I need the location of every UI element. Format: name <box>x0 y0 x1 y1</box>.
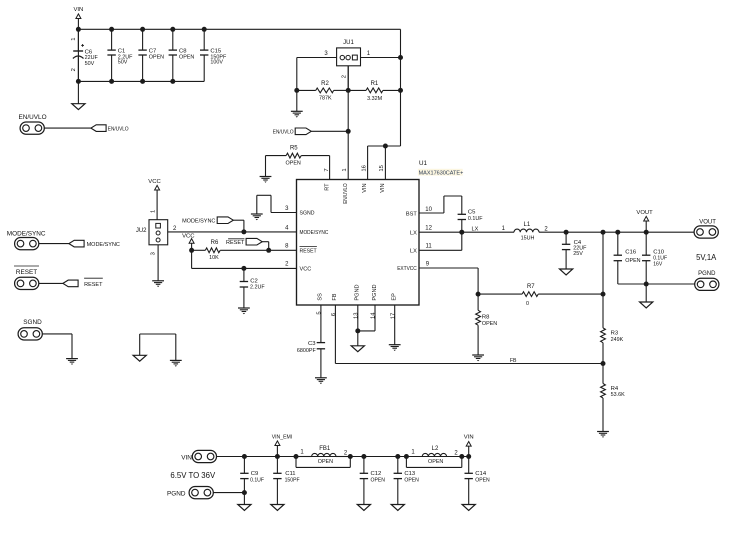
svg-text:SGND: SGND <box>23 319 42 326</box>
svg-text:C11: C11 <box>285 471 295 477</box>
svg-text:14: 14 <box>371 312 377 319</box>
svg-text:VIN: VIN <box>464 435 474 441</box>
svg-text:MODE/SYNC: MODE/SYNC <box>7 230 46 237</box>
svg-text:MAX17630CATE+: MAX17630CATE+ <box>419 170 464 176</box>
svg-text:C10: C10 <box>653 250 665 256</box>
svg-text:VIN: VIN <box>380 183 386 192</box>
svg-text:1: 1 <box>71 37 77 40</box>
svg-text:RT: RT <box>325 183 331 191</box>
svg-text:3.32M: 3.32M <box>367 96 382 102</box>
svg-text:C12: C12 <box>371 471 382 477</box>
svg-text:10: 10 <box>425 207 432 213</box>
svg-text:FB: FB <box>510 358 517 364</box>
svg-text:C3: C3 <box>308 341 316 347</box>
svg-text:0.1UF: 0.1UF <box>250 478 264 484</box>
svg-text:RESET: RESET <box>226 240 245 246</box>
svg-text:2: 2 <box>342 75 348 78</box>
svg-text:5V,1A: 5V,1A <box>696 252 716 262</box>
svg-text:2.2UF: 2.2UF <box>250 284 265 290</box>
svg-text:EN/UVLO: EN/UVLO <box>108 126 129 132</box>
svg-text:R8: R8 <box>482 314 490 320</box>
svg-text:C14: C14 <box>475 471 487 477</box>
svg-text:FB: FB <box>332 293 338 300</box>
svg-text:2: 2 <box>71 68 77 71</box>
svg-text:LX: LX <box>472 227 479 233</box>
svg-text:7: 7 <box>324 168 330 171</box>
svg-text:R7: R7 <box>527 284 535 290</box>
svg-text:10K: 10K <box>209 255 219 261</box>
svg-text:100V: 100V <box>210 60 223 66</box>
svg-text:LX: LX <box>410 248 417 254</box>
svg-text:RESET: RESET <box>16 269 37 276</box>
svg-text:MODE/SYNC: MODE/SYNC <box>182 218 215 224</box>
svg-text:12: 12 <box>425 226 432 232</box>
svg-text:LX: LX <box>410 230 417 236</box>
svg-text:VOUT: VOUT <box>636 210 653 216</box>
svg-text:EN/UVLO: EN/UVLO <box>19 114 47 121</box>
svg-text:MODE/SYNC: MODE/SYNC <box>300 230 329 236</box>
svg-text:13: 13 <box>354 312 360 319</box>
svg-text:U1: U1 <box>419 160 428 167</box>
svg-text:EN/UVLO: EN/UVLO <box>273 129 294 135</box>
svg-text:3: 3 <box>151 252 157 255</box>
svg-text:R4: R4 <box>611 386 619 392</box>
svg-text:17: 17 <box>390 313 396 320</box>
svg-text:16V: 16V <box>653 261 663 267</box>
svg-text:OPEN: OPEN <box>371 478 386 484</box>
svg-text:OPEN: OPEN <box>428 459 443 465</box>
svg-text:OPEN: OPEN <box>179 54 194 60</box>
svg-text:C9: C9 <box>251 471 259 477</box>
svg-text:FB1: FB1 <box>319 446 331 452</box>
svg-text:RESET: RESET <box>300 248 318 254</box>
svg-text:VCC: VCC <box>148 179 161 185</box>
svg-text:50V: 50V <box>85 61 95 67</box>
svg-text:16: 16 <box>361 164 367 171</box>
svg-text:R1: R1 <box>371 81 379 87</box>
svg-text:EN/UVLO: EN/UVLO <box>343 183 349 204</box>
svg-text:OPEN: OPEN <box>318 459 333 465</box>
svg-text:VIN_EMI: VIN_EMI <box>272 435 293 441</box>
svg-text:C16: C16 <box>625 250 637 256</box>
svg-text:RESET: RESET <box>84 282 103 288</box>
svg-text:C13: C13 <box>404 471 416 477</box>
svg-text:OPEN: OPEN <box>149 54 164 60</box>
svg-text:C5: C5 <box>468 210 476 216</box>
svg-text:15UH: 15UH <box>521 236 535 242</box>
svg-text:787K: 787K <box>319 95 332 101</box>
svg-text:SS: SS <box>318 293 324 301</box>
svg-text:50V: 50V <box>118 60 128 66</box>
svg-text:150PF: 150PF <box>285 478 300 484</box>
svg-text:R5: R5 <box>290 146 298 152</box>
svg-text:25V: 25V <box>573 251 583 257</box>
svg-text:SGND: SGND <box>300 211 315 217</box>
svg-text:R6: R6 <box>211 240 219 246</box>
svg-text:6.5V TO 36V: 6.5V TO 36V <box>170 471 215 480</box>
svg-text:PGND: PGND <box>372 284 378 300</box>
svg-text:R3: R3 <box>611 330 619 336</box>
svg-text:VOUT: VOUT <box>699 219 716 225</box>
svg-text:1: 1 <box>342 168 348 171</box>
svg-text:VIN: VIN <box>181 454 192 461</box>
svg-text:MODE/SYNC: MODE/SYNC <box>87 242 120 248</box>
svg-text:EP: EP <box>392 293 398 301</box>
svg-text:PGND: PGND <box>167 490 186 497</box>
svg-text:15: 15 <box>379 164 385 171</box>
svg-text:11: 11 <box>425 244 432 250</box>
svg-text:BST: BST <box>406 212 417 218</box>
svg-text:OPEN: OPEN <box>475 478 490 484</box>
svg-text:VIN: VIN <box>362 183 368 192</box>
svg-text:VIN: VIN <box>73 7 83 13</box>
svg-text:PGND: PGND <box>698 271 716 277</box>
svg-text:JU2: JU2 <box>136 228 147 234</box>
svg-text:VCC: VCC <box>182 234 195 240</box>
svg-text:OPEN: OPEN <box>404 478 419 484</box>
svg-text:1: 1 <box>151 210 157 213</box>
svg-text:OPEN: OPEN <box>625 258 640 264</box>
svg-text:53.6K: 53.6K <box>611 392 625 398</box>
svg-text:249K: 249K <box>611 337 624 343</box>
svg-text:L2: L2 <box>432 446 439 452</box>
svg-text:JU1: JU1 <box>343 40 354 46</box>
svg-text:OPEN: OPEN <box>482 321 497 327</box>
svg-text:0: 0 <box>526 301 529 307</box>
svg-text:EXTVCC: EXTVCC <box>397 266 417 272</box>
svg-text:PGND: PGND <box>355 284 361 300</box>
svg-text:L1: L1 <box>524 222 531 228</box>
svg-text:0.1UF: 0.1UF <box>468 216 483 222</box>
svg-text:6800PF: 6800PF <box>297 348 317 354</box>
svg-text:OPEN: OPEN <box>286 160 301 166</box>
svg-text:VCC: VCC <box>300 266 312 272</box>
svg-text:R2: R2 <box>321 81 329 87</box>
